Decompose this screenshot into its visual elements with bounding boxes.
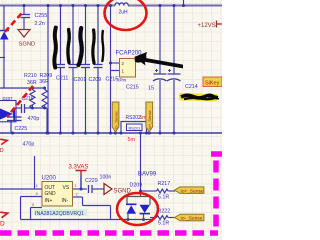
svg-text:2: 2	[76, 193, 78, 197]
svg-text:Io-_Sense: Io-_Sense	[113, 110, 118, 129]
svg-text:5.1R: 5.1R	[158, 221, 169, 227]
svg-text:RS201: RS201	[129, 126, 141, 131]
svg-text:VS: VS	[63, 185, 70, 191]
svg-text:C211: C211	[56, 76, 68, 82]
svg-text:36R: 36R	[39, 79, 49, 85]
svg-text:Io-_Sense: Io-_Sense	[181, 216, 203, 222]
svg-text:+12VS: +12VS	[198, 23, 216, 29]
svg-text:IN-: IN-	[62, 198, 69, 204]
svg-text:2uH: 2uH	[119, 10, 129, 16]
svg-text:3: 3	[36, 192, 38, 196]
svg-text:5m: 5m	[140, 115, 147, 121]
svg-text:C255: C255	[35, 13, 48, 19]
svg-text:2.2n: 2.2n	[35, 21, 45, 27]
svg-text:C21F: C21F	[106, 77, 120, 83]
svg-text:U200: U200	[42, 176, 57, 182]
svg-text:D207: D207	[3, 96, 14, 101]
svg-text:C209: C209	[89, 77, 102, 83]
svg-text:470p: 470p	[28, 116, 40, 122]
svg-text:D: D	[0, 221, 5, 228]
svg-text:C229: C229	[85, 178, 98, 184]
svg-text:3.3VAS: 3.3VAS	[69, 165, 89, 171]
svg-text:D: D	[0, 148, 4, 154]
svg-text:GND: GND	[45, 191, 57, 197]
svg-text:INA281A2QDBVRQ1: INA281A2QDBVRQ1	[35, 211, 84, 217]
svg-text:R222: R222	[158, 209, 171, 215]
svg-text:5m: 5m	[128, 137, 136, 143]
svg-text:36R: 36R	[27, 80, 37, 86]
svg-text:470p: 470p	[23, 142, 35, 148]
svg-text:R217: R217	[158, 181, 171, 187]
svg-text:IN+: IN+	[45, 198, 53, 204]
svg-text:Io+_Sense: Io+_Sense	[181, 188, 204, 194]
svg-text:1: 1	[75, 184, 77, 188]
svg-text:BAV99: BAV99	[138, 172, 157, 178]
svg-text:100n: 100n	[100, 175, 112, 181]
svg-text:SiKey: SiKey	[205, 81, 220, 87]
svg-text:R210: R210	[24, 73, 37, 79]
svg-text:SGND: SGND	[19, 42, 36, 48]
svg-text:OUT: OUT	[45, 185, 56, 191]
svg-text:C215: C215	[126, 85, 139, 91]
svg-text:Io+_Sense: Io+_Sense	[147, 109, 152, 129]
svg-text:C201: C201	[74, 77, 87, 83]
svg-text:4: 4	[36, 184, 38, 188]
svg-text:C225: C225	[15, 126, 28, 132]
svg-text:15: 15	[148, 86, 154, 92]
svg-text:D209: D209	[130, 183, 143, 189]
svg-text:5.1R: 5.1R	[158, 195, 169, 201]
svg-text:5: 5	[32, 203, 34, 207]
svg-text:C214: C214	[185, 84, 198, 90]
